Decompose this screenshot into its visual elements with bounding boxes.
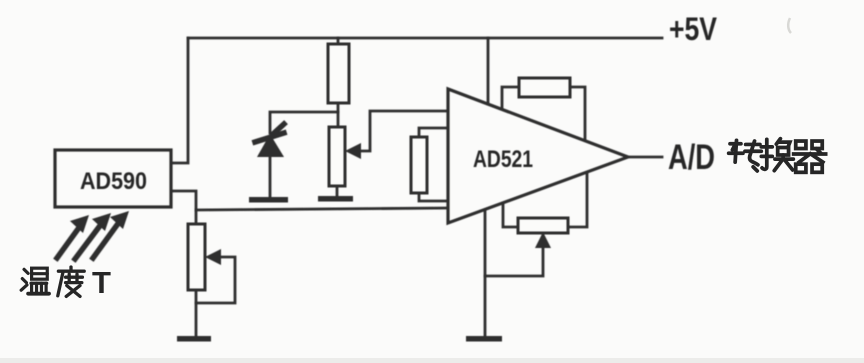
temperature arrow 2 [75,227,99,259]
wire R2 top bracket [419,128,448,137]
potentiometer RP2 body [329,127,345,186]
wire node A down to potentiometer RP1 [195,210,198,224]
label qi (converter char 3) [794,141,826,172]
wire node A to op-amp inverting input [196,208,448,210]
label wen (temperature char 1) [21,268,49,294]
op-amp U2 AD521 [448,89,628,223]
svg-text:T: T [92,265,111,300]
svg-text:+5V: +5V [669,11,718,47]
wire R2 bottom bracket [419,193,448,201]
scan artifact top right mark [788,18,791,33]
zener diode D1 [257,134,284,157]
wire rail to R1 [337,38,340,44]
temperature arrow 1 [57,229,78,258]
potentiometer RS body [518,218,568,233]
wire Rf right bracket [570,87,585,140]
svg-text:AD521: AD521 [473,146,533,173]
scan artifact bottom edge [0,358,864,363]
wire AD590 lower pin to node A [171,191,196,210]
wire zener to ground [269,157,272,197]
svg-text:A/D: A/D [668,138,715,177]
wire RP1 bottom to ground [195,290,198,336]
potentiometer RP2 wiper arrow to op-amp input [359,111,448,151]
label zhuan (converter char 1) [729,140,762,171]
sensor U1 AD590 [55,150,171,207]
wire RS left bracket [503,203,518,227]
wire R1 to RP2 [337,103,340,127]
ground G1 [177,336,211,342]
resistor R1 [328,44,349,103]
wire RP2 bottom to ground [336,186,339,196]
resistor R2 input [411,137,427,193]
potentiometer RP1 wiper arrow [196,257,235,303]
wire rail to op-amp V+ [487,38,490,104]
resistor Rf feedback [519,78,570,97]
ground G4 [466,336,502,342]
wire RS right bracket [568,173,587,227]
ground G2 [249,197,288,203]
potentiometer RP1 body [188,224,205,290]
label du (temperature char 2) [58,267,84,296]
svg-text:AD590: AD590 [80,168,147,195]
potentiometer RS wiper arrow [485,247,543,276]
wire rail to AD590 upper pin [171,38,188,163]
wire Rf left bracket [502,87,519,109]
ground G3 [318,196,353,202]
wire op-amp V- to ground [484,210,487,336]
wire +5V rail [188,37,662,40]
wire zener top to R1/RP2 node [270,112,338,133]
temperature arrow 3 [93,225,117,258]
label huan (converter char 2) [761,139,793,171]
wire op-amp output [628,156,662,159]
